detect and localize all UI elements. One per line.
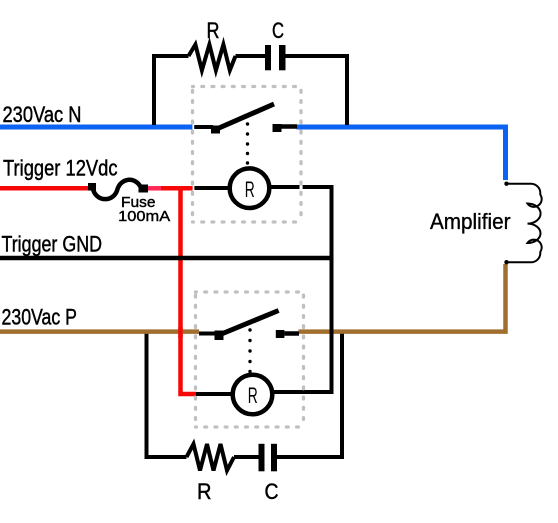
relay K2 enclosure (dashed box) [196, 292, 304, 427]
relay K2 switch right terminal [276, 330, 285, 338]
label 100mA [118, 209, 170, 225]
wire fuse to relay K1 (red segment) [161, 186, 193, 191]
svg-text:Trigger GND: Trigger GND [2, 232, 103, 257]
wire 230Vac P left (brown) [0, 329, 199, 334]
wire bottom snubber loop right [277, 334, 342, 457]
wire Trigger 12Vdc left (red) [0, 186, 89, 191]
label 230Vac N [3, 102, 82, 127]
wire 12Vdc drop to relay K2 coil (red) [181, 190, 197, 394]
label Amplifier [430, 209, 511, 234]
wire bottom snubber loop left [147, 334, 187, 457]
relay K2 coil [233, 375, 273, 415]
wire resistor R to capacitor C top [236, 54, 266, 58]
wire 12Vdc drop crossing 230Vac P (red over brown) [178, 327, 183, 338]
relay K1 coil [230, 168, 270, 208]
wire 230Vac P right to amplifier (brown) [299, 264, 506, 332]
relay K2 actuation dotted link [248, 328, 251, 373]
svg-text:C: C [272, 18, 284, 43]
svg-text:R: R [248, 383, 258, 408]
svg-text:Trigger 12Vdc: Trigger 12Vdc [3, 156, 118, 181]
capacitor C top right plate [279, 45, 286, 70]
label C top [272, 18, 284, 43]
label Trigger 12Vdc [3, 156, 118, 181]
relay K1 enclosure (dashed box) [193, 87, 302, 223]
resistor R top [189, 45, 236, 71]
relay K1 switch blade [216, 104, 275, 130]
label 230Vac P [2, 305, 78, 330]
inductor amplifier input coil [507, 184, 542, 263]
relay K1 switch right lead [281, 124, 297, 129]
capacitor C bottom left plate [259, 444, 265, 472]
label Trigger GND [2, 232, 103, 257]
wire Trigger GND (black) [0, 256, 334, 261]
capacitor C bottom right plate [271, 444, 277, 472]
wire resistor R to capacitor C bottom [234, 455, 259, 459]
svg-text:R: R [207, 18, 220, 43]
svg-text:R: R [245, 177, 255, 202]
label Fuse [121, 195, 156, 211]
fuse F1 right terminal [139, 185, 149, 193]
svg-text:230Vac P: 230Vac P [2, 305, 78, 330]
wire top snubber loop left [154, 56, 189, 125]
relay K2 switch right lead [284, 331, 299, 336]
svg-text:230Vac N: 230Vac N [3, 102, 82, 127]
fuse F1 left terminal [88, 183, 96, 191]
wire 230Vac N right to amplifier (blue) [297, 127, 506, 180]
relay K1 switch pivot terminal [211, 126, 220, 134]
svg-text:Amplifier: Amplifier [430, 209, 511, 234]
svg-text:C: C [265, 479, 279, 504]
node amplifier bottom junction [504, 260, 508, 264]
relay K1 switch right terminal [273, 124, 282, 132]
relay K1 actuation dotted link [246, 122, 249, 164]
svg-text:100mA: 100mA [118, 209, 170, 225]
wire 230Vac N left (blue) [0, 125, 192, 130]
label R top [207, 18, 220, 43]
wire top snubber loop right [286, 56, 348, 125]
relay K2 switch left lead [199, 332, 217, 336]
resistor R bottom [187, 444, 235, 471]
relay K2 switch blade [219, 311, 279, 336]
relay K1 coil left lead [194, 186, 230, 190]
label R bottom [197, 479, 212, 504]
wire fuse to relay K1 (pink segment) [148, 186, 161, 191]
relay K2 coil left lead [196, 392, 234, 396]
relay K2 switch pivot terminal [215, 331, 224, 341]
svg-text:R: R [197, 479, 212, 504]
capacitor C top left plate [265, 45, 271, 70]
wire relay K1 coil to GND rail (black) [267, 187, 332, 392]
label C bottom [265, 479, 279, 504]
relay K1 switch left lead [194, 125, 213, 129]
node amplifier top junction [504, 182, 508, 186]
fuse F1 body [93, 180, 141, 199]
